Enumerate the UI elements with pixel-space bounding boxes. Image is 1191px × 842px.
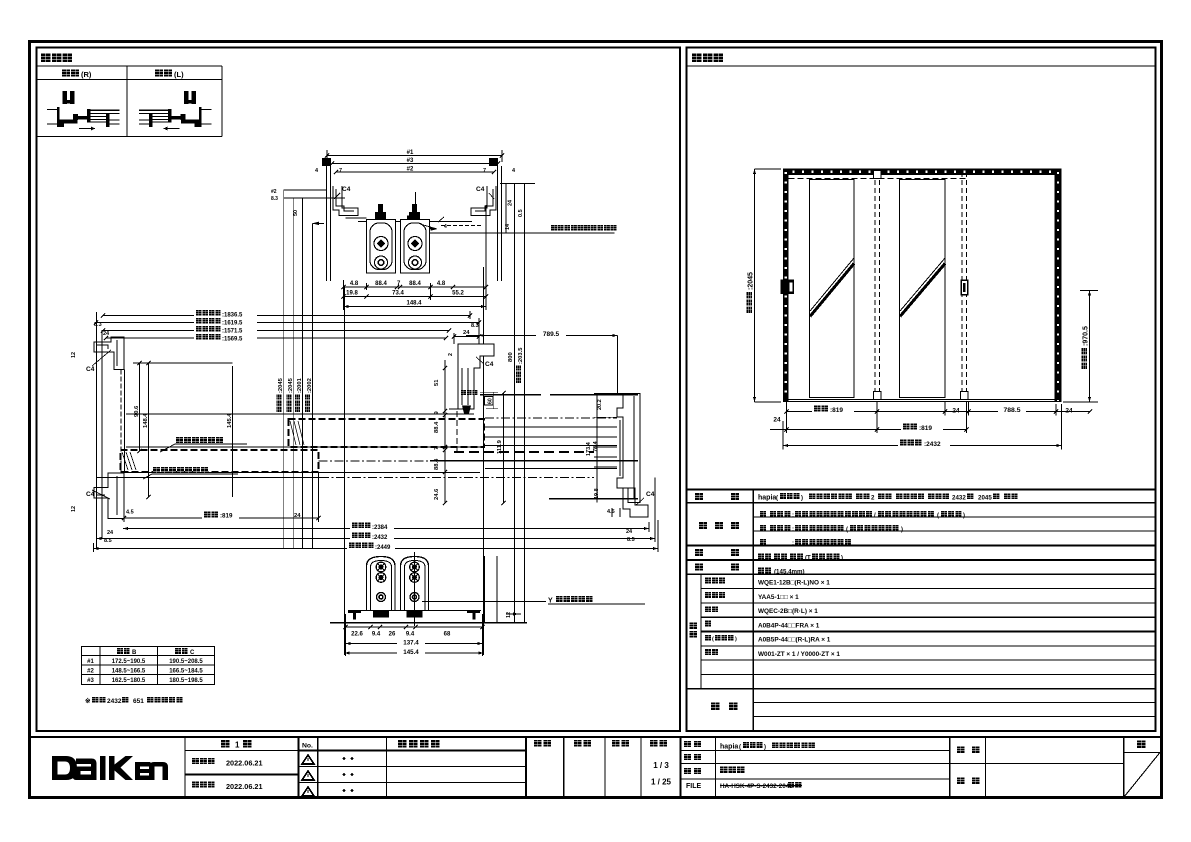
- svg-text:2045: 2045: [978, 495, 992, 502]
- center mullion profile: [458, 344, 494, 409]
- svg-text:(145.4mm): (145.4mm): [774, 569, 805, 576]
- svg-text:137.4: 137.4: [403, 640, 419, 647]
- svg-text:50: 50: [293, 210, 299, 216]
- svg-text:68: 68: [444, 632, 451, 638]
- dim 111.9: [503, 393, 505, 503]
- svg-text:B: B: [132, 650, 137, 656]
- long vertical dimension extension lines center: [283, 190, 285, 549]
- right jamb door-end hatch: [594, 416, 617, 418]
- svg-text:W001-ZT × 1 / Y0000-ZT × 1: W001-ZT × 1 / Y0000-ZT × 1: [758, 651, 840, 658]
- approval headers 承認 確認 作成 縮尺: [534, 740, 541, 747]
- svg-text:651: 651: [133, 698, 144, 705]
- svg-text:): ): [735, 637, 737, 643]
- svg-text:162.5~180.5: 162.5~180.5: [112, 678, 146, 684]
- floor guide unit 1: [367, 557, 396, 611]
- svg-text:WQEC-2B□(R·L) × 1: WQEC-2B□(R·L) × 1: [758, 608, 818, 615]
- svg-text:8.5: 8.5: [627, 537, 635, 543]
- rotated 12 dim: [506, 612, 512, 618]
- svg-text:148.4: 148.4: [143, 413, 149, 428]
- svg-text::2045: :2045: [288, 377, 294, 393]
- mullion vertical dim chain: [444, 360, 446, 503]
- svg-text::2002: :2002: [307, 378, 313, 393]
- left panel title 断面図: [41, 53, 50, 62]
- vertical extension lines from top assembly: [344, 286, 346, 655]
- svg-text:60: 60: [488, 398, 494, 404]
- head rail line: [346, 217, 367, 219]
- adjustment size table: [82, 647, 215, 685]
- opening width dimension lines: [103, 315, 470, 317]
- svg-text:#2: #2: [87, 668, 94, 674]
- right side small vertical dims: [505, 184, 507, 234]
- svg-text::819: :819: [830, 407, 843, 414]
- svg-text:): ): [963, 513, 965, 519]
- long vertical pair right-center: [514, 184, 516, 623]
- svg-text:7: 7: [339, 168, 342, 174]
- svg-text:C4: C4: [646, 491, 655, 498]
- left vertical dim 90.6: [139, 363, 141, 451]
- svg-text:24: 24: [107, 530, 114, 536]
- svg-text:55.2: 55.2: [452, 291, 464, 297]
- svg-text:12: 12: [71, 506, 77, 512]
- svg-text:166.5~184.5: 166.5~184.5: [169, 668, 203, 674]
- revision history header: [398, 740, 406, 748]
- spec label 重量: [695, 563, 703, 570]
- svg-text:): ): [901, 527, 903, 533]
- vertical dim 145.4: [232, 366, 234, 497]
- title block horizontals: [185, 750, 298, 752]
- svg-text:173.4: 173.4: [586, 441, 592, 456]
- svg-text:20.2: 20.2: [597, 399, 603, 410]
- svg-text:4.5: 4.5: [126, 510, 134, 516]
- svg-text::1619.5: :1619.5: [222, 320, 243, 326]
- right panel title 正面図: [692, 53, 701, 62]
- svg-text:8.3: 8.3: [94, 322, 102, 328]
- svg-text:7: 7: [483, 168, 486, 174]
- svg-text:88.4: 88.4: [409, 281, 421, 287]
- svg-text::1836.5: :1836.5: [222, 312, 243, 318]
- svg-text::1571.5: :1571.5: [222, 328, 243, 334]
- spec label 品番: [690, 622, 697, 629]
- spec value finish row1: [760, 511, 766, 517]
- svg-text:C4: C4: [86, 491, 95, 498]
- svg-text:0.5: 0.5: [518, 209, 524, 217]
- mullion small dim 24: [454, 336, 479, 338]
- floor clip left: [348, 610, 361, 613]
- svg-text:24: 24: [294, 513, 301, 519]
- door handle on hidden edge: [961, 280, 968, 295]
- staff cell label: [957, 777, 964, 784]
- svg-text:800: 800: [508, 352, 514, 362]
- hidden door edge dashed pair 2: [961, 172, 963, 399]
- key table header 右引(R): [62, 69, 70, 76]
- svg-text:(R): (R): [81, 70, 92, 79]
- svg-text:(: (: [712, 637, 714, 643]
- left jamb channel: [120, 370, 122, 474]
- key diagram left-slide (L) mirrored: [139, 91, 212, 130]
- svg-text:4: 4: [444, 224, 447, 230]
- left jamb profile bottom piece: [94, 473, 124, 519]
- right jamb profile: [594, 394, 640, 503]
- svg-text:C4: C4: [476, 186, 485, 193]
- svg-text:): ): [841, 556, 843, 562]
- svg-text:26: 26: [389, 632, 396, 638]
- svg-text:88.4: 88.4: [375, 281, 387, 287]
- svg-text:2022.06.21: 2022.06.21: [226, 782, 263, 791]
- head jamb bracket left: [333, 186, 358, 216]
- floor guide unit 2: [401, 557, 429, 611]
- svg-text:#3: #3: [87, 678, 94, 684]
- svg-text:7: 7: [434, 447, 440, 450]
- annotation leader 2 V-cap: [143, 474, 152, 479]
- svg-text:14: 14: [505, 223, 511, 230]
- svg-text:C4: C4: [86, 366, 95, 373]
- spec value finish row2: [760, 525, 766, 531]
- left outer extension lines: [96, 312, 98, 549]
- spec table outline: [687, 489, 1156, 491]
- head jamb bracket right: [471, 186, 496, 216]
- svg-text:2432: 2432: [107, 698, 122, 705]
- svg-text:88.4: 88.4: [434, 421, 440, 433]
- svg-text::: :: [792, 541, 794, 547]
- svg-text:22.6: 22.6: [351, 632, 363, 638]
- svg-text:90.6: 90.6: [134, 405, 140, 417]
- Y rail leader and label: [422, 600, 546, 602]
- page diagonal: [1124, 753, 1160, 797]
- left vertical dim 148.4: [148, 363, 150, 497]
- spec value finish row3: [760, 539, 766, 545]
- svg-text:4.8: 4.8: [350, 281, 359, 287]
- svg-text:(L): (L): [174, 70, 184, 79]
- svg-text::970.5: :970.5: [1083, 326, 1090, 346]
- svg-text:9.4: 9.4: [372, 632, 381, 638]
- title block top line: [30, 736, 1160, 738]
- front view frame bottom: [783, 399, 1062, 401]
- bottom frame line left: [96, 477, 320, 479]
- right panel border: [687, 48, 1156, 732]
- bottom guide dims: [346, 626, 483, 628]
- svg-text:2: 2: [871, 495, 875, 502]
- svg-text:148.5~166.5: 148.5~166.5: [112, 668, 146, 674]
- svg-text:1 / 3: 1 / 3: [653, 761, 669, 770]
- door panel 1: [810, 180, 855, 398]
- front view bottom dims row3: [783, 445, 1062, 447]
- section key table: [37, 65, 223, 67]
- 改訂日 row: [192, 781, 199, 787]
- dim 789.5 top: [466, 335, 618, 337]
- pocket leader arrow: [420, 224, 437, 229]
- panel 1 design stripe: [810, 258, 854, 311]
- track horizontal line upper: [126, 413, 474, 415]
- svg-text:51: 51: [434, 379, 440, 386]
- lower door leaf (near door) plan: [121, 450, 319, 472]
- svg-text:#1: #1: [87, 659, 94, 665]
- svg-text:#3: #3: [407, 158, 414, 164]
- item number label: [684, 754, 691, 760]
- front view top inner dashed line: [789, 178, 969, 180]
- svg-text:148.4: 148.4: [406, 301, 422, 307]
- svg-text:180.5~198.5: 180.5~198.5: [169, 678, 203, 684]
- key diagram right-slide (R): [47, 91, 120, 130]
- track horizontal line lower: [126, 471, 480, 473]
- pocket top line: [480, 394, 541, 396]
- mullion stopper label: [461, 390, 466, 395]
- svg-text:C4: C4: [342, 186, 351, 193]
- top assembly lower dimension rows: [344, 286, 487, 288]
- svg-text:19.8: 19.8: [346, 291, 358, 297]
- svg-text:1: 1: [235, 741, 240, 750]
- svg-text:No.: No.: [302, 743, 313, 750]
- svg-text:4.5: 4.5: [607, 509, 615, 515]
- spec value handle row: [758, 554, 764, 560]
- svg-text::819: :819: [220, 513, 233, 520]
- spec label 型式: [695, 493, 703, 500]
- drawing name label and value: [684, 768, 691, 774]
- front view right dim 970.5: [1089, 291, 1091, 403]
- svg-text:24: 24: [1065, 407, 1073, 414]
- page header 頁: [1137, 740, 1145, 748]
- mullion dim 60: [492, 392, 494, 409]
- svg-text:24: 24: [952, 407, 960, 414]
- hanger bolts top: [322, 158, 331, 166]
- front view left height dim 2045: [754, 169, 756, 402]
- svg-text:(: (: [739, 745, 741, 751]
- svg-text:※: ※: [85, 697, 91, 705]
- table headers: [117, 648, 123, 654]
- svg-text:73.4: 73.4: [392, 291, 404, 297]
- spec table vertical dividers: [752, 490, 754, 731]
- history row dots: [343, 757, 346, 760]
- revision triangles: [302, 755, 314, 764]
- svg-text::2045: :2045: [278, 377, 284, 393]
- front view bottom dims row2: [787, 429, 967, 431]
- bottom frame line right dash-dot: [320, 477, 594, 479]
- spec label 備考: [711, 702, 719, 710]
- floor clip right: [467, 610, 480, 613]
- title block verticals: [184, 738, 186, 798]
- door handle on left frame: [781, 280, 795, 295]
- front view bottom dims row1: [787, 411, 1091, 413]
- head rail label: [551, 225, 557, 231]
- door width dim 819: [124, 517, 319, 519]
- svg-text:#1: #1: [407, 150, 414, 156]
- hidden rail edge dashed: [441, 225, 483, 227]
- svg-text:2432: 2432: [952, 495, 966, 502]
- top connectors for center verticals: [284, 189, 327, 191]
- pocket bottom line: [549, 498, 638, 500]
- author cell label: [957, 746, 964, 753]
- svg-text::: :: [792, 513, 794, 519]
- left jamb profile top piece: [94, 337, 124, 370]
- bottom overall width dims: [123, 528, 649, 530]
- svg-text:788.5: 788.5: [1003, 407, 1020, 414]
- svg-text:WQE1-12B□(R-L)NO × 1: WQE1-12B□(R-L)NO × 1: [758, 580, 830, 587]
- right jamb bottom hook piece: [623, 488, 648, 517]
- svg-text:8.3: 8.3: [471, 323, 479, 329]
- head rail leader line to label: [427, 232, 615, 234]
- center rotated height labels: [276, 367, 285, 413]
- front view frame head rail: [783, 169, 1062, 176]
- mullion lower dashed edge: [456, 411, 458, 452]
- svg-text:hapia: hapia: [758, 495, 776, 502]
- svg-text:1 / 25: 1 / 25: [651, 778, 672, 787]
- svg-text::2432: :2432: [924, 441, 941, 448]
- svg-text::1569.5: :1569.5: [222, 336, 243, 342]
- top assembly dimension lines #1 #3 #2: [327, 155, 502, 157]
- svg-text::2045: :2045: [748, 272, 755, 290]
- svg-text:78.4: 78.4: [593, 440, 599, 452]
- left rotated small dims: [71, 352, 77, 358]
- panel 2 design stripe: [900, 258, 945, 311]
- pocket center bold line: [430, 460, 638, 462]
- svg-text:HA-HSK-4P-S-2432-2045-: HA-HSK-4P-S-2432-2045-: [720, 783, 795, 790]
- svg-text::2001: :2001: [297, 377, 303, 393]
- svg-text:24: 24: [626, 529, 633, 535]
- spec label 把手: [695, 549, 703, 556]
- floor line lower: [330, 622, 527, 624]
- svg-text:2: 2: [448, 353, 454, 356]
- svg-text:111.9: 111.9: [497, 439, 503, 454]
- svg-text:12: 12: [71, 352, 77, 358]
- svg-text:24: 24: [508, 199, 514, 206]
- spec value weight row: [758, 568, 764, 574]
- svg-text:2022.06.21: 2022.06.21: [226, 759, 263, 768]
- spec sublabels: [705, 578, 711, 584]
- svg-text:8.3: 8.3: [271, 196, 278, 202]
- svg-text:4.8: 4.8: [437, 281, 446, 287]
- svg-text::203.5: :203.5: [518, 347, 524, 364]
- pocket interior lines: [485, 417, 617, 419]
- svg-text:hapia: hapia: [720, 744, 738, 751]
- svg-text:24: 24: [773, 417, 781, 424]
- spec label 仕上げ: [699, 522, 707, 529]
- svg-text:190.5~208.5: 190.5~208.5: [169, 659, 203, 665]
- svg-text:): ): [764, 745, 766, 751]
- svg-text:(T: (T: [805, 556, 811, 562]
- svg-text::2449: :2449: [375, 545, 391, 551]
- svg-text::819: :819: [919, 425, 932, 432]
- svg-text::2432: :2432: [372, 535, 388, 541]
- svg-text:A0B5P-44□□(R-L)RA × 1: A0B5P-44□□(R-L)RA × 1: [758, 637, 831, 644]
- name label and value: [684, 741, 691, 747]
- svg-text:(: (: [776, 496, 778, 502]
- upper door leaf (far door) plan: [289, 419, 485, 447]
- front view frame right stile: [1055, 169, 1062, 402]
- svg-text:145.4: 145.4: [403, 649, 419, 656]
- svg-text:12: 12: [506, 612, 512, 618]
- hidden door edge dashed pair 1: [874, 172, 876, 399]
- DAIKEN logo: [52, 756, 168, 780]
- svg-text:#2: #2: [407, 167, 414, 173]
- svg-text:88.4: 88.4: [434, 458, 440, 470]
- svg-text:#2: #2: [271, 189, 277, 195]
- svg-text:9.4: 9.4: [406, 632, 415, 638]
- svg-text:FILE: FILE: [686, 783, 701, 790]
- door panel 2: [900, 180, 946, 398]
- svg-text:(: (: [937, 513, 939, 519]
- svg-text::2384: :2384: [372, 525, 388, 531]
- svg-text:172.5~190.5: 172.5~190.5: [112, 659, 146, 665]
- row1 extension lines: [786, 402, 788, 416]
- hanger roller unit 1: [375, 212, 386, 221]
- left panel border: [37, 48, 681, 732]
- floor line upper: [348, 609, 481, 611]
- key table header 左引(L): [155, 69, 163, 76]
- svg-text:A0B4P-44□□FRA × 1: A0B4P-44□□FRA × 1: [758, 622, 820, 629]
- svg-text:24.6: 24.6: [434, 488, 440, 500]
- svg-text::: :: [792, 527, 794, 533]
- svg-text:(: (: [846, 527, 848, 533]
- svg-text:C: C: [190, 650, 195, 656]
- floor guide verticals right: [483, 556, 485, 623]
- right jamb rotated dims: [597, 399, 603, 410]
- right jamb extension vertical: [617, 336, 619, 394]
- front view frame left stile: [783, 169, 789, 402]
- 制定日 row: [192, 758, 199, 764]
- annotation leader 1: [160, 444, 175, 452]
- svg-text:24: 24: [103, 331, 110, 337]
- hanger roller unit 2: [409, 212, 420, 221]
- wall stud lines above head rail: [326, 166, 328, 281]
- track horizontal line mid: [126, 446, 485, 448]
- svg-text:C4: C4: [485, 361, 494, 368]
- svg-text:19.8: 19.8: [594, 488, 600, 499]
- svg-text:789.5: 789.5: [543, 331, 560, 338]
- svg-text:): ): [801, 496, 803, 502]
- svg-text:YAA5-1□□ × 1: YAA5-1□□ × 1: [758, 594, 799, 601]
- revision header 第1版: [221, 740, 229, 748]
- svg-text:145.4: 145.4: [227, 413, 233, 428]
